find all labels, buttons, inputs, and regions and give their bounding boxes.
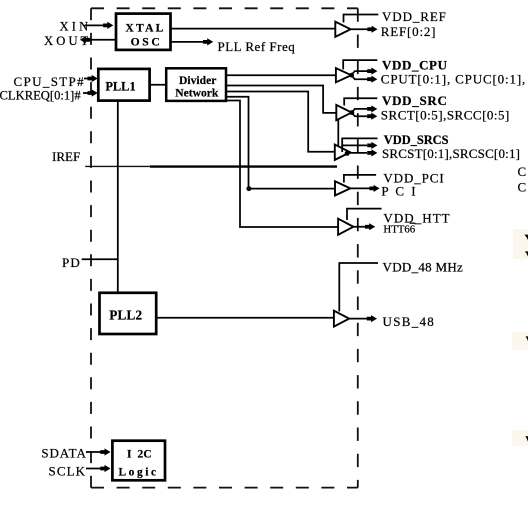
arrow USB output <box>367 315 377 322</box>
svg-text:X O U T: X O U T <box>44 34 89 48</box>
wire XIN input <box>85 24 105 26</box>
svg-text:CPU_STP#: CPU_STP# <box>14 74 86 89</box>
svg-text:VDD_CPU: VDD_CPU <box>382 57 448 72</box>
svg-text:Logic: Logic <box>118 467 158 479</box>
VDD_CPU rail <box>343 60 377 69</box>
svg-text:PLL1: PLL1 <box>105 79 135 93</box>
buffer PCI U5 <box>335 181 350 195</box>
wire Divider to SRCS buffer <box>226 92 335 152</box>
wire REF output <box>351 28 368 30</box>
buffer CPU U2 <box>336 68 351 82</box>
wire Divider to PCI buffer <box>226 97 336 189</box>
arrow SCLK <box>100 465 110 472</box>
wire SRCS output lower <box>347 152 367 154</box>
wire CPU output lower <box>351 75 368 79</box>
arrow CLKREQ <box>88 89 98 96</box>
wire PLL1 down to PLL2 <box>117 101 119 293</box>
arrow XIN input <box>103 22 113 29</box>
buffer USB U7 <box>334 311 349 327</box>
svg-text:Divider: Divider <box>179 74 216 87</box>
svg-text:VDD_48 MHz: VDD_48 MHz <box>383 260 464 275</box>
wire CLKREQ input stub <box>83 92 89 94</box>
svg-text:PD: PD <box>62 255 81 270</box>
svg-text:USB_48: USB_48 <box>383 314 436 329</box>
arrow PLL Ref Freq <box>203 38 213 45</box>
cut-off glyph fragment v4 <box>525 436 528 441</box>
cream tint spots right edge <box>513 229 528 259</box>
svg-text:CLKREQ[0:1]#: CLKREQ[0:1]# <box>0 89 81 103</box>
wire PCI output <box>350 187 370 189</box>
svg-text:IREF: IREF <box>52 149 80 164</box>
junction dot SRC apex <box>350 110 355 115</box>
svg-text:VDD_SRCS: VDD_SRCS <box>384 133 449 147</box>
wire HTT output <box>353 226 365 228</box>
block Divider Network <box>166 68 226 101</box>
block I2C Logic <box>112 441 165 481</box>
wire SCLK stub <box>86 468 101 470</box>
junction dot PCI feed <box>246 186 251 191</box>
wire XOUT output <box>89 39 116 41</box>
svg-text:PLL Ref Freq: PLL Ref Freq <box>218 39 296 54</box>
wire SDATA stub <box>86 451 101 453</box>
svg-text:SDATA: SDATA <box>41 446 86 461</box>
block PLL1 <box>98 69 149 101</box>
svg-text:CPUT[0:1], CPUC[0:1],: CPUT[0:1], CPUC[0:1], <box>381 72 526 87</box>
svg-text:HTT66: HTT66 <box>383 224 415 236</box>
VDD_REF rail <box>344 15 379 23</box>
svg-text:I 2C: I 2C <box>127 448 152 460</box>
svg-text:SCLK: SCLK <box>49 463 87 478</box>
IC boundary dashed box <box>91 8 358 487</box>
arrow CPU_STP# <box>88 75 98 82</box>
wire XTAL to PLL Ref Freq <box>170 41 204 43</box>
arrow XOUT (points left) <box>80 36 90 43</box>
wire XTAL to REF buffer <box>170 28 336 30</box>
wire CPU output upper <box>351 71 368 75</box>
op-amp style buffer REF U1 <box>335 22 350 37</box>
svg-text:C: C <box>518 164 527 179</box>
wire IREF thick part <box>150 165 337 167</box>
VDD_PCI rail <box>344 175 376 183</box>
block PLL2 <box>100 293 157 334</box>
junction dot SRCS apex <box>345 151 350 156</box>
VDD_SRC rail <box>344 98 377 105</box>
arrow SDATA <box>100 448 110 455</box>
arrow SRCS upper <box>367 142 377 149</box>
wire SRC output lower <box>352 113 367 117</box>
node SRC to SRCS vertical link <box>337 118 339 147</box>
wire PLL1 to Divider Network <box>150 84 167 86</box>
arrow SRC lower <box>367 113 377 120</box>
svg-text:OSC: OSC <box>131 36 163 49</box>
wire CPU_STP# input stub <box>84 78 89 80</box>
VDD_48 rail <box>339 263 378 312</box>
arrow REF output <box>367 26 377 33</box>
svg-text:Network: Network <box>175 87 219 100</box>
buffer HTT U6 <box>338 219 353 235</box>
svg-text:REF[0:2]: REF[0:2] <box>381 24 437 39</box>
arrow SRCS lower <box>367 149 377 156</box>
arrow CPU upper <box>367 68 377 75</box>
arrow CPU lower <box>367 76 377 83</box>
wire SRCS output upper <box>342 145 367 152</box>
cut-off glyph fragment v3 <box>526 336 528 341</box>
svg-text:PLL2: PLL2 <box>109 308 142 323</box>
svg-text:X I N: X I N <box>60 19 89 33</box>
wire SRC output upper <box>352 109 367 113</box>
junction dot CPU apex <box>349 73 354 78</box>
buffer SRC U3 <box>336 105 351 120</box>
buffer SRCS U4 <box>335 145 350 160</box>
arrow SRC upper <box>367 105 377 112</box>
wire PD input <box>82 258 118 260</box>
svg-text:SRCT[0:5],SRCC[0:5]: SRCT[0:5],SRCC[0:5] <box>381 108 510 123</box>
wire Divider to CPU buffer <box>226 74 337 76</box>
cut-off glyph fragment v1 <box>524 235 528 240</box>
VDD_SRCS rail <box>342 138 377 152</box>
wire Divider to SRC buffer <box>226 86 337 113</box>
arrow HTT output <box>365 223 375 230</box>
wire Divider to HTT buffer <box>226 101 339 228</box>
svg-text:XTAL: XTAL <box>125 22 165 35</box>
cut-off glyph fragment v2 <box>525 251 528 256</box>
wire IREF thin part <box>85 165 150 167</box>
arrow PCI output <box>369 185 379 192</box>
svg-text:VDD_REF: VDD_REF <box>382 9 447 24</box>
VDD_HTT rail <box>347 209 382 220</box>
block XTAL OSC <box>116 14 171 50</box>
svg-text:P C I: P C I <box>381 183 417 198</box>
svg-text:C: C <box>518 180 527 195</box>
svg-text:VDD_SRC: VDD_SRC <box>382 93 448 108</box>
wire USB output <box>349 318 367 320</box>
svg-text:SRCST[0:1],SRCSC[0:1]: SRCST[0:1],SRCSC[0:1] <box>382 146 520 161</box>
wire PLL2 to USB buffer <box>156 317 334 319</box>
